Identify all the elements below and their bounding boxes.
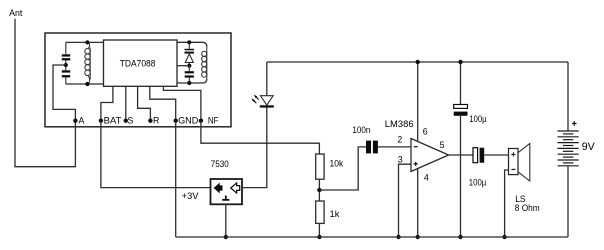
wire right tank bottom [177,79,207,83]
terminal R [148,119,152,123]
loudspeaker LS [509,149,519,175]
node pin6 rail [416,60,420,64]
svg-text:S: S [128,115,134,125]
terminal BAT [99,119,103,123]
wire left tank bottom [66,83,104,85]
svg-text:BAT: BAT [104,115,122,125]
battery plus mark [572,121,576,125]
node divider tap [317,188,321,192]
wire IC pin to S [125,86,127,120]
wire from C1/C2 node to terminal A [53,65,75,121]
wire pin 3 to ground rail [399,164,412,237]
node R2 ground [317,235,321,239]
svg-text:6: 6 [423,126,428,136]
antenna label Ant [9,8,23,18]
svg-text:Ant: Ant [9,8,23,18]
wire R1 to R2 [318,179,320,201]
wire IC pin to NF [163,86,201,120]
wire IC pin to GND [150,86,176,120]
svg-text:2: 2 [397,135,402,145]
node pin4 ground [416,235,420,239]
svg-text:8 Ohm: 8 Ohm [515,203,540,213]
wire antenna from Ant down, right, up to terminal A [15,19,75,167]
svg-text:100µ: 100µ [469,114,487,125]
node right tank top [187,40,191,44]
wire left tank top [66,41,104,43]
svg-text:+3V: +3V [182,191,200,201]
wire regulator ground pin [225,204,227,237]
wire speaker minus to ground rail [505,170,509,237]
wire BAT to regulator +3V [101,121,211,188]
capacitor C1 (top left trimmer) [65,42,67,54]
IC U1 TDA7088 [104,40,178,86]
inductor L2 [206,47,208,80]
svg-text:100µ: 100µ [469,177,487,188]
svg-text:TDA7088: TDA7088 [120,58,156,68]
wire right tank top [177,42,207,46]
node L1 top [85,40,89,44]
label +3V [182,191,200,201]
svg-text:4: 4 [424,173,429,183]
varactor diode D1 (double-bar varicap) [188,42,190,49]
wire C4 to pin 2 [378,146,411,148]
voltage regulator U3 7530 [211,159,229,169]
wire IC pin to R [138,86,151,120]
pin 3 plus mark [414,162,418,166]
capacitor C2 (bottom left) [65,60,67,70]
resistor R1 10k [316,154,324,179]
wire IC pin to BAT [101,86,113,120]
wire R2 bottom to ground rail [318,223,320,237]
wire NF to R1 top [201,121,320,154]
svg-text:GND: GND [178,115,198,125]
capacitor C6 100u coupling [473,148,478,163]
svg-text:9V: 9V [582,141,596,153]
node C5 rail [458,60,462,64]
battery BT1 9V [567,62,569,131]
node between C1 and C2 [64,63,68,67]
regulator input arrow (solid) [214,183,223,194]
pin 2 minus mark [414,146,418,148]
node regulator ground on rail [224,235,228,239]
wire +9V top rail [267,61,568,63]
op-amp U2 LM386 [385,119,414,130]
svg-text:NF: NF [208,115,219,125]
node L1 bottom [85,82,89,86]
LED D2 [260,96,273,105]
wire pin 5 output [449,154,473,156]
svg-text:1k: 1k [330,209,340,219]
resistor R2 1k [316,201,324,223]
node speaker ground [502,235,506,239]
capacitor C4 100n [352,125,370,136]
node D1/C3 [187,64,191,68]
wire ground bottom rail [176,236,568,238]
regulator ground symbol [222,196,229,200]
U2 pin number labels 2 3 6 4 5 [397,126,444,182]
wire pin 4 to ground rail [417,169,419,237]
wire GND down to ground rail [175,121,177,237]
node C5 ground [458,235,462,239]
wire LED anode to +9V rail [266,62,268,96]
svg-text:LM386: LM386 [385,119,414,130]
terminal S [124,119,128,123]
terminal NF [199,119,203,123]
wire divider tap to C4 [319,147,366,190]
wire C6 to speaker [484,154,508,156]
svg-text:5: 5 [440,140,445,150]
node right tank bottom [187,81,191,85]
LED arrows [254,97,259,103]
svg-text:100n: 100n [352,125,370,136]
wire node to IC right edge [177,65,189,67]
svg-text:A: A [79,115,85,125]
svg-text:7530: 7530 [211,159,229,169]
inductor L1 [87,42,89,48]
svg-text:R: R [153,115,159,125]
capacitor C3 [188,66,190,72]
node pin3 ground [396,235,400,239]
capacitor C5 100u decoupling [460,62,462,105]
svg-text:3: 3 [398,155,403,165]
wire regulator input to LED cathode line [242,108,267,188]
terminal GND [174,119,178,123]
module outer box (TDA7088 receiver module) [45,33,231,127]
terminal A [73,119,77,123]
wire pin 6 to +9V rail [417,62,419,142]
regulator output arrow (outline) [231,183,240,193]
svg-text:10k: 10k [330,159,344,169]
